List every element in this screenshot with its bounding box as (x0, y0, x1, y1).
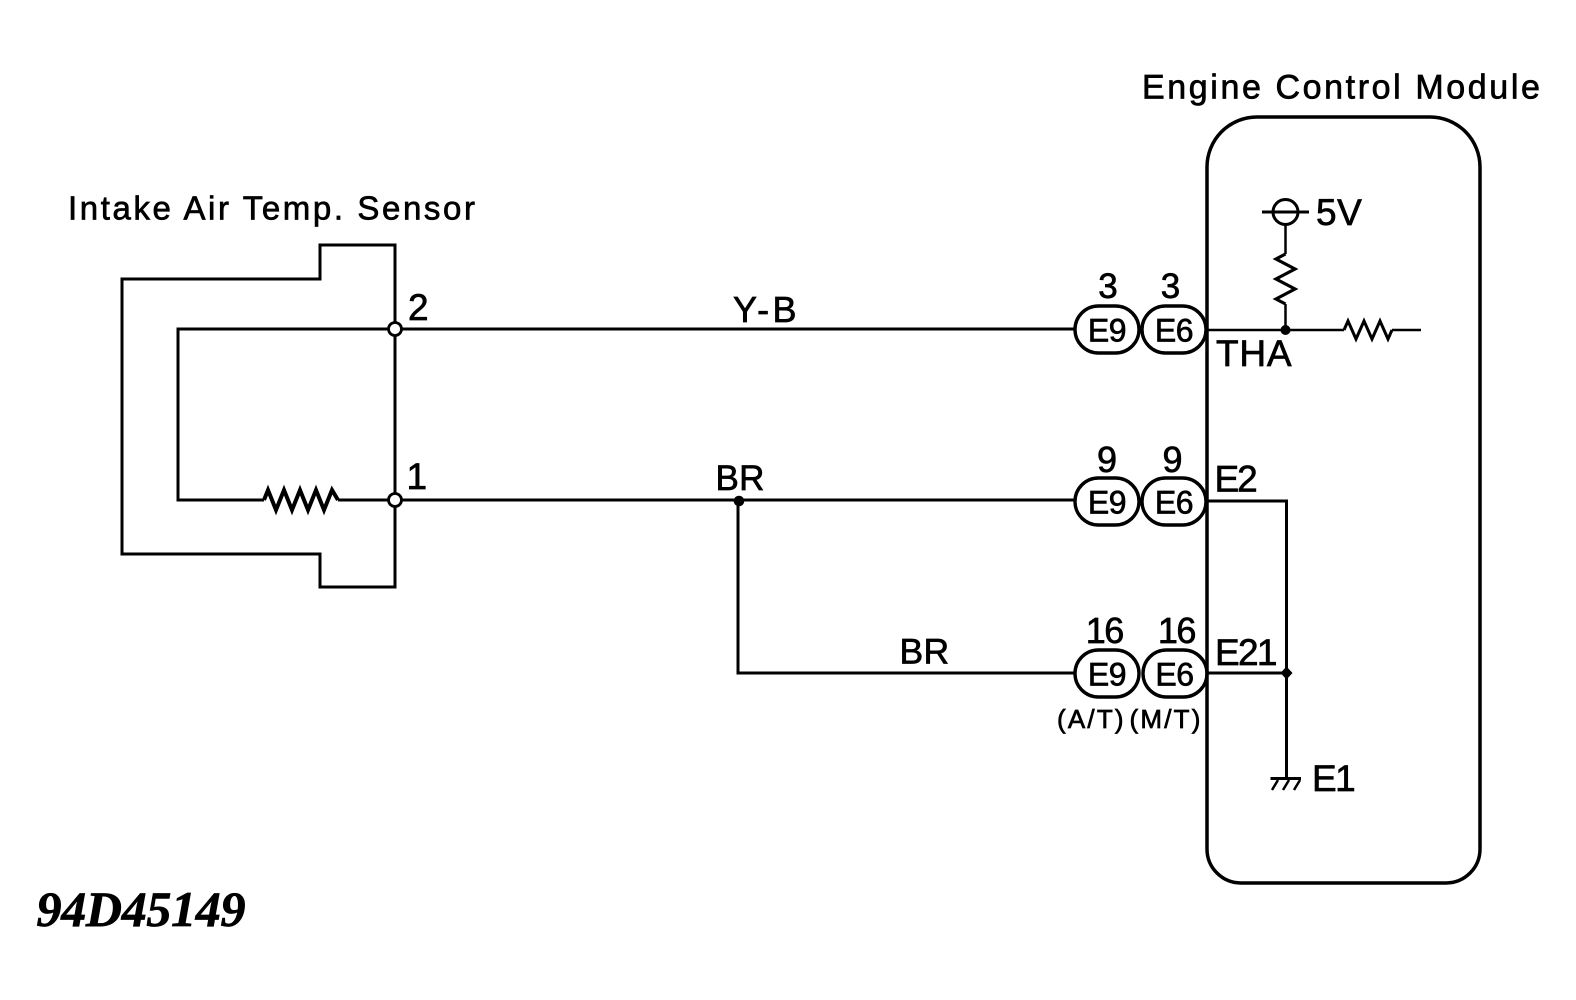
svg-text:BR: BR (900, 632, 950, 672)
svg-text:2: 2 (408, 287, 429, 328)
svg-text:9: 9 (1097, 439, 1117, 480)
svg-text:(A/T): (A/T) (1057, 704, 1126, 734)
connector E6 row2 (1142, 478, 1206, 525)
svg-text:E21: E21 (1215, 632, 1276, 673)
svg-text:94D45149: 94D45149 (37, 881, 246, 937)
svg-text:3: 3 (1161, 267, 1180, 306)
5V supply terminal symbol (1273, 200, 1298, 225)
junction dot THA node (1281, 325, 1291, 335)
svg-text:E9: E9 (1088, 313, 1126, 349)
connector E6 row1 (1142, 306, 1206, 353)
svg-text:E6: E6 (1155, 313, 1193, 349)
svg-text:E1: E1 (1312, 758, 1354, 799)
svg-text:E6: E6 (1155, 485, 1193, 521)
wire Y-B pin2 to E9 (395, 328, 1074, 331)
connector E9 row3 (1075, 650, 1139, 697)
connector E6 row3 (1143, 650, 1207, 697)
svg-text:THA: THA (1216, 333, 1292, 374)
series resistor (horizontal) (1344, 321, 1392, 339)
wire resistor to THA node (1284, 304, 1287, 330)
thermistor resistor element (264, 490, 338, 510)
svg-text:E9: E9 (1088, 485, 1126, 521)
svg-text:1: 1 (407, 456, 428, 497)
svg-text:E9: E9 (1088, 657, 1126, 693)
svg-text:9: 9 (1162, 439, 1182, 480)
wire 5V to pull-up resistor (1284, 225, 1287, 255)
E2 wire (1207, 501, 1287, 777)
sensor body outline (122, 245, 395, 587)
svg-text:3: 3 (1098, 267, 1117, 306)
connector E9 row2 (1075, 478, 1139, 525)
E21 wire (1207, 672, 1287, 675)
svg-text:E2: E2 (1215, 459, 1257, 500)
pin 1 terminal (389, 494, 402, 507)
svg-text:16: 16 (1086, 610, 1124, 651)
Engine Control Module box (1207, 117, 1480, 883)
THA wire (1207, 329, 1421, 332)
svg-text:(M/T): (M/T) (1130, 704, 1203, 734)
sensor internal wire (178, 329, 395, 500)
pull-up resistor (vertical) (1276, 254, 1295, 304)
svg-text:16: 16 (1158, 610, 1196, 651)
connector E9 row1 (1075, 306, 1139, 353)
svg-text:E6: E6 (1155, 657, 1193, 693)
svg-text:Engine Control Module: Engine Control Module (1142, 69, 1542, 107)
junction diamond E21 node (1281, 667, 1293, 680)
junction on BR wire (734, 496, 745, 507)
svg-text:BR: BR (716, 459, 765, 498)
branch wire BR to E21 connector (738, 501, 1074, 673)
svg-text:5V: 5V (1316, 192, 1362, 233)
wire BR pin1 to E9 (395, 499, 1074, 502)
svg-text:Y-B: Y-B (733, 289, 800, 330)
ground symbol E1 (1271, 777, 1302, 780)
pin 2 terminal (389, 323, 402, 336)
svg-text:Intake Air Temp. Sensor: Intake Air Temp. Sensor (68, 190, 478, 227)
